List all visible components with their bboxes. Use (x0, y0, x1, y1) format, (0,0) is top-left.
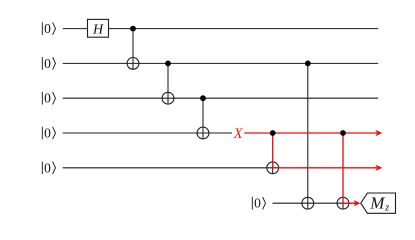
CNOT4 black vertical arm through target on q5 (272, 162, 274, 174)
CNOT1 vertical q1->q2 (132, 29, 134, 70)
svg-text:0: 0 (44, 21, 51, 36)
syndrome CNOT B black vertical arm through target on ancilla (342, 197, 344, 209)
syndrome CNOT A vertical q2->ancilla (307, 63, 309, 209)
red error wire q4 (244, 132, 377, 134)
CNOT2 target circle on q3 (162, 92, 174, 104)
CNOT1 target circle on q2 (127, 58, 139, 70)
svg-text:0: 0 (44, 126, 51, 141)
ket label q4 |0> (42, 127, 55, 140)
red arrowhead into measurement (354, 200, 361, 206)
wire q5 (black part) (63, 167, 280, 169)
svg-text:M: M (369, 194, 385, 213)
ket label q1 |0> (42, 22, 55, 35)
CNOT3 control dot on q3 (200, 95, 206, 101)
CNOT2 vertical q2->q3 (167, 63, 169, 104)
wire q1 (63, 28, 379, 30)
CNOT3 target circle on q4 (197, 127, 209, 139)
wire q3 (63, 97, 379, 99)
svg-text:z: z (384, 203, 389, 214)
ket label q5 |0> (42, 162, 55, 175)
svg-text:0: 0 (44, 56, 51, 71)
ket label q3 |0> (42, 92, 55, 105)
control dot on red wire q4 (syndrome CNOT B) (340, 130, 346, 136)
red vertical q4->ancilla (error propagation) (342, 133, 344, 203)
wire q4 (black part, ends before X) (63, 132, 232, 134)
CNOT3 vertical q3->q4 (202, 98, 204, 139)
red arrowhead q4 (375, 130, 382, 136)
measurement tag Mz pentagon (361, 193, 396, 213)
H gate box (88, 19, 109, 37)
control dot on red wire q4 (CNOT4) (270, 130, 276, 136)
CNOT1 control dot on q1 (130, 26, 136, 32)
svg-text:0: 0 (44, 160, 51, 175)
ket label ancilla |0> (252, 197, 265, 210)
red arrowhead q5 (375, 165, 382, 171)
red wire ancilla to measurement (343, 202, 356, 204)
ket label q2 |0> (42, 57, 55, 70)
CNOT2 control dot on q2 (165, 61, 171, 67)
svg-text:X: X (233, 126, 244, 142)
svg-text:H: H (92, 22, 104, 37)
syndrome CNOT B target circle on ancilla (337, 197, 349, 209)
red vertical q4->q5 (error propagation) (272, 133, 274, 168)
wire ancilla (273, 202, 358, 204)
svg-text:0: 0 (254, 196, 261, 211)
wire q2 (63, 62, 379, 64)
red error wire q5 (273, 167, 378, 169)
syndrome CNOT A target circle on ancilla (302, 197, 314, 209)
CNOT4 target circle on q5 (267, 162, 279, 174)
syndrome CNOT A control dot on q2 (305, 61, 311, 67)
svg-text:0: 0 (44, 91, 51, 106)
